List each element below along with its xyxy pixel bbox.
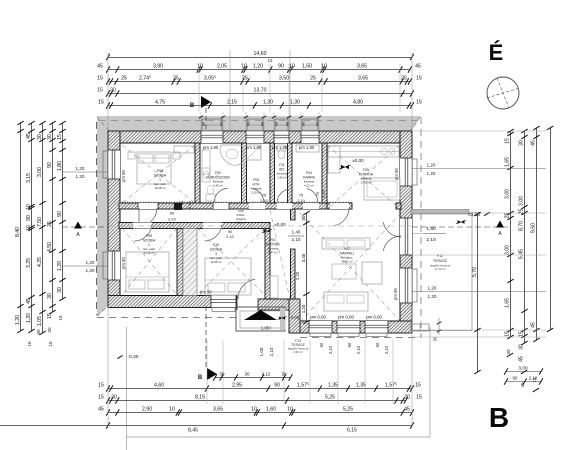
entrance arrow bbox=[244, 310, 277, 320]
svg-text:pm 90: pm 90 bbox=[121, 170, 126, 182]
svg-text:90: 90 bbox=[219, 121, 224, 126]
svg-text:90: 90 bbox=[274, 383, 280, 389]
level marker vestibule bbox=[264, 229, 268, 233]
svg-text:45: 45 bbox=[415, 64, 421, 70]
svg-text:15: 15 bbox=[47, 313, 53, 319]
svg-text:25: 25 bbox=[505, 213, 511, 219]
roof eave dashed line left bbox=[96, 122, 98, 315]
outer wall bottom entry section bbox=[258, 299, 300, 310]
roof eave dashed line bottom-right bbox=[300, 337, 421, 339]
svg-text:F12: F12 bbox=[437, 254, 443, 258]
bottom dimension row 2 bbox=[108, 400, 406, 402]
diagonal marks F08 bbox=[122, 145, 195, 203]
level marker terrace bowtie bbox=[458, 220, 462, 224]
svg-text:KÖZL.: KÖZL. bbox=[237, 213, 246, 217]
bottom dimension row 1 bbox=[108, 388, 412, 390]
kitchen terrace leader 1,20 bbox=[412, 233, 424, 235]
svg-text:3,50: 3,50 bbox=[279, 76, 289, 82]
terrace door opening right wall bbox=[400, 218, 412, 255]
svg-text:1,35: 1,35 bbox=[328, 383, 338, 389]
interior wall F11/F04 bbox=[288, 143, 293, 203]
svg-text:90: 90 bbox=[246, 121, 251, 126]
svg-text:F09: F09 bbox=[146, 234, 152, 238]
window F07 bottom 3 bbox=[365, 321, 388, 333]
svg-text:25: 25 bbox=[519, 209, 525, 215]
entry porch outline bbox=[236, 307, 285, 331]
furniture toilet F11 bbox=[278, 150, 285, 159]
svg-text:15: 15 bbox=[27, 341, 32, 347]
roof eave dashed line right bbox=[420, 117, 422, 337]
top dimension row 1 total 14,60 bbox=[108, 57, 412, 59]
pillar block at F08 corner bbox=[174, 203, 182, 210]
level marker porch bbox=[279, 316, 282, 319]
right chains bottom ticks bbox=[507, 353, 513, 357]
furniture cabinet F02 bbox=[202, 150, 210, 174]
svg-text:2,74⁵: 2,74⁵ bbox=[139, 76, 151, 82]
roof hip dashed top-right bbox=[410, 117, 420, 131]
svg-text:pm 0,00: pm 0,00 bbox=[310, 315, 326, 320]
svg-text:3,00: 3,00 bbox=[505, 189, 511, 199]
svg-text:pm 90: pm 90 bbox=[200, 290, 212, 295]
svg-text:90: 90 bbox=[228, 230, 232, 234]
svg-text:30: 30 bbox=[57, 287, 63, 293]
svg-text:30: 30 bbox=[110, 88, 116, 94]
svg-text:2,10: 2,10 bbox=[297, 198, 306, 203]
terrace bottom edge line bbox=[412, 330, 472, 332]
svg-text:Kerámia: Kerámia bbox=[236, 217, 246, 221]
svg-text:4,50: 4,50 bbox=[47, 242, 53, 252]
svg-text:15: 15 bbox=[415, 383, 421, 389]
svg-text:90: 90 bbox=[260, 121, 265, 126]
outer wall right bbox=[400, 131, 412, 333]
outer wall inner face line bottom left bbox=[120, 295, 237, 297]
svg-text:1,30: 1,30 bbox=[290, 100, 300, 106]
svg-text:1,85⁵: 1,85⁵ bbox=[261, 326, 272, 331]
furniture kitchen counter F05 top bbox=[328, 146, 399, 157]
svg-text:4,80: 4,80 bbox=[353, 100, 363, 106]
roof overhang gray band left bbox=[97, 116, 108, 317]
bottom extension lines bbox=[107, 306, 109, 428]
svg-text:B: B bbox=[190, 103, 195, 109]
svg-text:1,80: 1,80 bbox=[426, 226, 436, 232]
dotted insulation line above corridor wall bbox=[122, 201, 352, 203]
svg-text:F10: F10 bbox=[213, 243, 219, 247]
svg-text:15: 15 bbox=[519, 331, 525, 337]
svg-text:pm 1,80: pm 1,80 bbox=[299, 145, 315, 150]
svg-text:pm 0,00: pm 0,00 bbox=[366, 315, 382, 320]
top dimension row 4 bbox=[108, 93, 412, 95]
svg-text:8,15: 8,15 bbox=[195, 395, 205, 401]
svg-text:1,50 m²: 1,50 m² bbox=[277, 175, 287, 179]
svg-text:12,28 m²: 12,28 m² bbox=[154, 186, 165, 190]
svg-text:3,65: 3,65 bbox=[357, 64, 367, 70]
svg-text:13,70: 13,70 bbox=[254, 88, 267, 94]
leader 1,20 kitchen right bbox=[412, 168, 546, 170]
entry porch step shading bbox=[280, 308, 286, 330]
diagonal marks F07 living room bbox=[300, 213, 401, 322]
svg-text:90: 90 bbox=[278, 64, 284, 70]
outer wall step between entry and living room bbox=[289, 299, 300, 333]
interior wall F08/F02 bbox=[195, 143, 200, 203]
terrace leader 1,20 bbox=[412, 291, 546, 293]
svg-text:1,00: 1,00 bbox=[259, 347, 264, 356]
svg-text:90: 90 bbox=[179, 200, 184, 205]
outer wall bottom left section bbox=[108, 296, 237, 308]
svg-text:26,61 m²: 26,61 m² bbox=[341, 259, 352, 263]
left dimension chain 4 bbox=[52, 123, 54, 312]
svg-text:30: 30 bbox=[47, 327, 52, 333]
interior wall kitchen stub right bbox=[396, 203, 401, 209]
terrace small step rect bbox=[411, 324, 429, 331]
window F02 top bbox=[201, 131, 223, 143]
svg-text:10: 10 bbox=[251, 407, 257, 413]
svg-text:2,10: 2,10 bbox=[529, 376, 538, 381]
svg-text:±0,00: ±0,00 bbox=[352, 158, 364, 163]
svg-text:1,20: 1,20 bbox=[253, 64, 263, 70]
right extension lines bbox=[412, 130, 546, 132]
furniture corner bathtub F02 bbox=[220, 145, 243, 165]
svg-text:25: 25 bbox=[121, 76, 127, 82]
outer wall inner face line bottom right bbox=[300, 320, 400, 322]
top dimension row 2 bbox=[108, 69, 410, 71]
svg-text:75: 75 bbox=[299, 193, 304, 198]
svg-text:45: 45 bbox=[531, 140, 537, 146]
svg-text:5,25: 5,25 bbox=[343, 407, 353, 413]
svg-text:2,10: 2,10 bbox=[269, 347, 274, 356]
svg-text:1,57⁵: 1,57⁵ bbox=[385, 383, 397, 389]
interior wall F01/F07 vestibule right upper bbox=[291, 209, 296, 220]
level marker kitchen bbox=[341, 165, 345, 169]
top dimension row 3 bbox=[108, 81, 410, 83]
svg-text:5,70: 5,70 bbox=[472, 267, 478, 277]
svg-text:pm 90: pm 90 bbox=[393, 288, 398, 300]
svg-text:10: 10 bbox=[26, 225, 32, 231]
furniture washer F03 bbox=[246, 145, 261, 160]
roof overhang gray band top bbox=[97, 116, 421, 131]
outer wall inner face line right bbox=[399, 143, 401, 321]
svg-text:3,36 m²: 3,36 m² bbox=[293, 350, 303, 354]
svg-text:B: B bbox=[198, 375, 203, 381]
svg-text:15: 15 bbox=[416, 76, 422, 82]
window F10 bottom bbox=[211, 296, 236, 308]
window F07 bottom 2 bbox=[337, 321, 360, 333]
svg-text:2,12: 2,12 bbox=[262, 372, 271, 377]
furniture toilet F02 bbox=[206, 194, 215, 201]
svg-text:1,05: 1,05 bbox=[37, 316, 43, 326]
svg-text:TERASZ: TERASZ bbox=[433, 259, 448, 263]
svg-text:pm 90: pm 90 bbox=[394, 168, 399, 180]
svg-text:1,20: 1,20 bbox=[427, 163, 436, 168]
section A marker right bbox=[496, 221, 504, 228]
svg-text:15: 15 bbox=[505, 331, 511, 337]
svg-text:30: 30 bbox=[245, 372, 250, 377]
svg-text:1,20: 1,20 bbox=[428, 294, 437, 299]
svg-text:3,65: 3,65 bbox=[358, 76, 368, 82]
svg-text:15: 15 bbox=[98, 383, 104, 389]
door F02 from corridor bbox=[213, 203, 229, 209]
svg-text:5,86 m²: 5,86 m² bbox=[237, 220, 246, 224]
svg-text:10: 10 bbox=[169, 407, 175, 413]
furniture bed F09 bbox=[126, 252, 169, 292]
svg-text:4,60: 4,60 bbox=[154, 383, 164, 389]
svg-text:6,15: 6,15 bbox=[347, 428, 357, 434]
svg-text:pm 1,80: pm 1,80 bbox=[203, 145, 219, 150]
svg-text:1,80: 1,80 bbox=[57, 161, 63, 171]
svg-text:3,00: 3,00 bbox=[518, 366, 528, 372]
furniture bed F08 bbox=[137, 152, 171, 184]
outer wall inner face line top bbox=[120, 142, 400, 144]
svg-text:4,40 m²: 4,40 m² bbox=[213, 183, 223, 187]
svg-text:45: 45 bbox=[404, 407, 410, 413]
svg-text:90: 90 bbox=[285, 121, 290, 126]
svg-text:4,25: 4,25 bbox=[37, 257, 43, 267]
svg-text:7,50: 7,50 bbox=[37, 217, 43, 227]
svg-text:5,25: 5,25 bbox=[325, 395, 335, 401]
svg-text:2,15: 2,15 bbox=[227, 100, 237, 106]
svg-text:30: 30 bbox=[506, 349, 511, 355]
svg-text:14,60: 14,60 bbox=[254, 51, 267, 57]
terrace width dim 5,70 bbox=[477, 214, 479, 372]
window F04 top bbox=[301, 131, 319, 143]
svg-text:90: 90 bbox=[47, 162, 53, 168]
furniture kitchen counter F05 left bbox=[328, 146, 340, 173]
diagonal marks F01 bbox=[270, 210, 290, 299]
svg-text:2,10: 2,10 bbox=[260, 198, 269, 203]
svg-text:30: 30 bbox=[519, 344, 525, 350]
svg-text:1,20: 1,20 bbox=[427, 171, 436, 176]
svg-text:1,65: 1,65 bbox=[505, 298, 511, 308]
door F03 from corridor bbox=[249, 203, 265, 209]
nappali left interior dim chain bbox=[306, 213, 308, 322]
svg-text:1,20: 1,20 bbox=[76, 174, 85, 179]
svg-text:13,12 m²: 13,12 m² bbox=[143, 251, 154, 255]
svg-text:8,45: 8,45 bbox=[188, 428, 198, 434]
svg-text:10: 10 bbox=[287, 407, 293, 413]
interior wall corridor bottom bbox=[119, 223, 270, 229]
diagonal marks F05 kitchen bbox=[327, 145, 400, 209]
svg-text:ELŐTÉR: ELŐTÉR bbox=[266, 241, 280, 246]
svg-text:9,60: 9,60 bbox=[531, 223, 537, 233]
svg-text:FÜRDŐSZOBA: FÜRDŐSZOBA bbox=[206, 174, 230, 179]
svg-text:2,10: 2,10 bbox=[328, 345, 333, 354]
outer wall left bbox=[108, 131, 120, 308]
furniture shelf F04 bbox=[296, 145, 319, 152]
svg-text:F08: F08 bbox=[157, 169, 163, 173]
svg-text:1,20: 1,20 bbox=[76, 166, 85, 171]
interior wall F10/F01 vestibule left bbox=[265, 229, 270, 300]
door F09 from corridor bbox=[133, 223, 152, 229]
svg-text:8,70: 8,70 bbox=[519, 221, 525, 231]
svg-text:pm 90: pm 90 bbox=[121, 257, 126, 269]
svg-text:2,10: 2,10 bbox=[426, 237, 436, 243]
terrace top gray edge bbox=[411, 210, 469, 215]
svg-text:4,75: 4,75 bbox=[155, 100, 165, 106]
svg-text:45: 45 bbox=[97, 64, 103, 70]
svg-text:30: 30 bbox=[519, 140, 525, 146]
svg-text:1,20: 1,20 bbox=[15, 315, 21, 325]
window F11 top bbox=[274, 131, 289, 143]
left dimension chain 3 bbox=[42, 123, 44, 333]
svg-text:1,57⁵: 1,57⁵ bbox=[297, 383, 309, 389]
svg-text:2,90: 2,90 bbox=[142, 407, 152, 413]
left dimension chain 2 bbox=[31, 123, 33, 331]
svg-text:60: 60 bbox=[347, 342, 352, 347]
svg-text:1,50: 1,50 bbox=[302, 64, 312, 70]
porch dimension chain bbox=[215, 377, 291, 379]
svg-text:1,20: 1,20 bbox=[26, 313, 32, 323]
svg-text:50: 50 bbox=[301, 215, 306, 220]
svg-text:3,65: 3,65 bbox=[213, 407, 223, 413]
window F07 bottom 1 bbox=[309, 321, 332, 333]
svg-text:-0,30: -0,30 bbox=[128, 354, 139, 360]
svg-text:10: 10 bbox=[268, 58, 273, 63]
outer wall bottom right section bbox=[300, 321, 412, 333]
svg-text:2,10: 2,10 bbox=[187, 200, 192, 209]
svg-text:90: 90 bbox=[36, 329, 41, 335]
svg-text:2,10: 2,10 bbox=[384, 345, 389, 354]
svg-text:11,85 m²: 11,85 m² bbox=[211, 260, 222, 264]
door F11 from corridor bbox=[277, 203, 292, 209]
diagonal marks F09 bbox=[122, 228, 177, 295]
svg-text:3,40: 3,40 bbox=[301, 253, 306, 262]
svg-text:3,15 m²: 3,15 m² bbox=[251, 190, 261, 194]
svg-text:3,00: 3,00 bbox=[505, 245, 511, 255]
svg-text:25: 25 bbox=[47, 221, 53, 227]
interior wall kitchen stub bbox=[327, 203, 352, 209]
left dimension chain 1 outer bbox=[20, 123, 22, 331]
svg-text:2,10: 2,10 bbox=[356, 345, 361, 354]
svg-text:pm 1,80: pm 1,80 bbox=[246, 145, 262, 150]
svg-text:15: 15 bbox=[505, 138, 511, 144]
svg-text:45: 45 bbox=[98, 407, 104, 413]
svg-text:2,10: 2,10 bbox=[321, 189, 326, 198]
pavement outline bottom bbox=[126, 327, 128, 450]
svg-text:3,00: 3,00 bbox=[519, 196, 525, 206]
svg-text:É: É bbox=[489, 40, 504, 65]
svg-text:17,90 m²: 17,90 m² bbox=[360, 180, 371, 184]
furniture sofa F07 top bbox=[322, 238, 370, 249]
svg-text:1,20: 1,20 bbox=[86, 260, 95, 265]
left window leader F09 bbox=[62, 265, 108, 267]
svg-text:45: 45 bbox=[26, 133, 32, 139]
svg-text:15: 15 bbox=[416, 395, 422, 401]
svg-text:75: 75 bbox=[315, 191, 320, 196]
furniture table F07 bbox=[332, 264, 356, 279]
svg-text:3,05⁵: 3,05⁵ bbox=[204, 76, 216, 82]
svg-text:10: 10 bbox=[197, 64, 203, 70]
svg-text:30: 30 bbox=[37, 134, 43, 140]
window F05 right bbox=[400, 158, 412, 186]
right dimension chain 4 bbox=[550, 128, 552, 330]
interior wall F01/F07 vestibule right lower bbox=[291, 249, 296, 299]
left window leader F08 bbox=[62, 171, 108, 173]
svg-text:1,35: 1,35 bbox=[356, 383, 366, 389]
furniture kitchen island F05 bbox=[364, 178, 400, 200]
svg-text:90: 90 bbox=[201, 121, 206, 126]
terrace double door arcs bbox=[383, 222, 401, 237]
svg-text:SZOBA: SZOBA bbox=[143, 239, 156, 243]
svg-text:90: 90 bbox=[57, 211, 63, 217]
furniture sofa F07 bottom bbox=[324, 292, 368, 311]
furniture armchair F07 right bbox=[362, 262, 382, 284]
window F03 top bbox=[246, 131, 264, 143]
svg-text:15: 15 bbox=[57, 134, 63, 140]
svg-text:45: 45 bbox=[26, 298, 32, 304]
svg-text:8,40: 8,40 bbox=[15, 227, 21, 237]
furniture bed F10 bbox=[205, 258, 251, 295]
door F08 from corridor bbox=[138, 203, 158, 209]
small dim 3,00 bottom right bbox=[506, 371, 541, 373]
svg-text:15: 15 bbox=[98, 100, 104, 106]
svg-text:5,47 m²: 5,47 m² bbox=[268, 250, 278, 254]
svg-text:SZOBA: SZOBA bbox=[210, 248, 223, 252]
roof eave dashed line top bbox=[99, 120, 419, 122]
svg-text:0,00: 0,00 bbox=[291, 315, 300, 320]
window F09 left bbox=[108, 251, 120, 280]
roof hip dashed top-left bbox=[97, 117, 110, 132]
door opening F01 to F07 bbox=[291, 220, 296, 249]
svg-text:3,90: 3,90 bbox=[153, 64, 163, 70]
svg-text:17,10 m²: 17,10 m² bbox=[434, 267, 445, 271]
outer wall inner face line left bbox=[119, 143, 121, 296]
svg-text:3,25: 3,25 bbox=[26, 258, 32, 268]
svg-text:SZOBA: SZOBA bbox=[154, 174, 167, 178]
svg-text:60: 60 bbox=[375, 342, 380, 347]
svg-text:3,00: 3,00 bbox=[37, 167, 43, 177]
svg-text:25: 25 bbox=[401, 76, 407, 82]
svg-text:45: 45 bbox=[519, 356, 525, 362]
bottom dimension row 3 bbox=[108, 412, 412, 414]
svg-text:3,15: 3,15 bbox=[26, 173, 32, 183]
svg-text:2,10: 2,10 bbox=[226, 235, 233, 239]
door F05 kitchen from corridor bbox=[330, 203, 349, 209]
door F10 from corridor bbox=[203, 223, 222, 229]
svg-text:90: 90 bbox=[26, 215, 32, 221]
furniture wardrobe F08 bbox=[174, 146, 194, 153]
svg-text:25: 25 bbox=[173, 76, 179, 82]
svg-text:15: 15 bbox=[97, 76, 103, 82]
svg-text:1,65: 1,65 bbox=[505, 157, 511, 167]
roof hip dashed bottom-left bbox=[97, 305, 109, 316]
svg-text:30: 30 bbox=[220, 372, 225, 377]
svg-text:10: 10 bbox=[241, 64, 247, 70]
svg-text:15: 15 bbox=[48, 341, 53, 347]
right dimension chain 2 bbox=[524, 131, 526, 343]
svg-text:15: 15 bbox=[416, 100, 422, 106]
svg-text:60: 60 bbox=[319, 342, 324, 347]
svg-text:2,10: 2,10 bbox=[292, 237, 301, 242]
top extension lines bbox=[107, 52, 109, 130]
interior wall F04/F05 bbox=[322, 143, 327, 203]
svg-text:90: 90 bbox=[170, 211, 175, 216]
diagonal marks F10 bbox=[197, 228, 265, 295]
svg-text:30: 30 bbox=[111, 395, 117, 401]
north compass circle bbox=[487, 77, 519, 109]
outer wall top bbox=[108, 131, 412, 143]
svg-text:4,12 m²: 4,12 m² bbox=[304, 183, 314, 187]
svg-text:30: 30 bbox=[404, 395, 410, 401]
svg-text:30: 30 bbox=[47, 293, 53, 299]
svg-text:90: 90 bbox=[274, 121, 279, 126]
svg-text:1,60: 1,60 bbox=[266, 407, 276, 413]
svg-text:B: B bbox=[489, 402, 509, 433]
bottom dimension row 4 bbox=[0, 425, 412, 427]
svg-text:30: 30 bbox=[282, 372, 287, 377]
svg-text:2,10: 2,10 bbox=[168, 217, 177, 222]
window F08 left bbox=[108, 150, 120, 179]
svg-text:15: 15 bbox=[97, 88, 103, 94]
section line A-A across plan bbox=[108, 225, 412, 227]
